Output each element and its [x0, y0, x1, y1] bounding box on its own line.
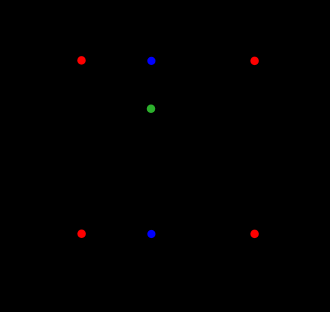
node D (green node on shunt branch) — [147, 105, 156, 114]
voltage source VS — [10, 61, 50, 234]
resistor R1 — [82, 55, 146, 67]
wire bottom rail — [30, 233, 310, 235]
resistor R2 — [151, 55, 245, 67]
node B (blue junction, top-middle) — [147, 57, 155, 65]
wire R1 to node B — [146, 60, 152, 62]
node G (red junction, bottom-right) — [250, 230, 259, 239]
capacitor C1 — [139, 109, 164, 234]
node A (red junction, top-left) — [77, 56, 86, 65]
wire node B to node D — [150, 61, 152, 109]
wire top-right — [245, 61, 310, 234]
wire top-left — [30, 60, 82, 62]
node C (red junction, top-right) — [250, 57, 259, 66]
node E (blue junction, bottom-middle) — [147, 230, 155, 238]
node F (red junction, bottom-left) — [77, 230, 86, 239]
